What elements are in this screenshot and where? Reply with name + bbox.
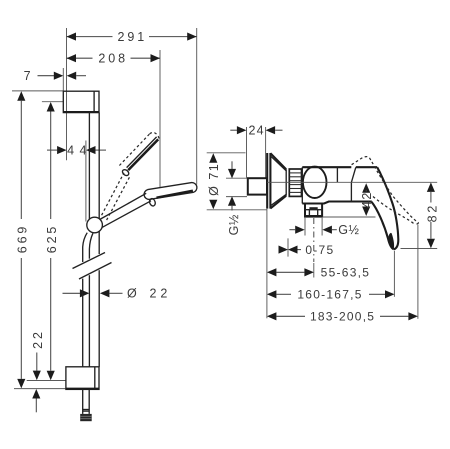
wall bracket top (63, 91, 99, 112)
dimension G1/2 outlet extension lines (304, 218, 306, 236)
svg-text:G½: G½ (338, 223, 359, 237)
dimension 160-167,5 line with arrows (267, 290, 277, 298)
dimension 291 extension line left (66, 28, 68, 160)
knurled nut (289, 169, 301, 196)
rail break mark (73, 253, 106, 269)
svg-text:4: 4 (67, 143, 74, 157)
lever handle top (356, 166, 377, 168)
dimension 291 line (67, 36, 113, 38)
svg-text:42: 42 (360, 191, 374, 208)
hand shower dashed head inner line (127, 137, 157, 168)
slider pivot (87, 217, 103, 233)
hand shower spray face (157, 191, 193, 198)
dimension G1/2 left arrows (231, 161, 233, 169)
rail tube right edge (98, 113, 100, 219)
dimension 7 right arrow and tail (67, 72, 77, 80)
svg-text:55-63,5: 55-63,5 (321, 266, 370, 280)
cartridge dome (303, 167, 327, 198)
dimension Ø71 bottom extension line (207, 209, 267, 211)
dimension 208 arrow right (151, 54, 161, 62)
svg-text:Ø 71: Ø 71 (207, 163, 221, 196)
outlet centerline dashed (313, 218, 315, 262)
dimension G1/2 outlet left arrow (289, 229, 295, 231)
svg-text:208: 208 (98, 52, 128, 66)
body centerline (267, 181, 437, 183)
dimension 24 right arrow with tail (266, 126, 276, 134)
dimension Ø22 right arrow with tail (100, 289, 110, 297)
dimension 183-200,5 extension from dashed lever tip (417, 225, 419, 319)
dimension 82 line with arrows (427, 182, 435, 192)
hand shower head (144, 183, 197, 200)
dimension 24 left arrow with tail (230, 129, 237, 131)
hose upper curve from slider (83, 233, 88, 247)
hand shower dashed head spray face (128, 139, 158, 170)
dimension G1/2 outlet right arrow with tail (322, 226, 332, 234)
dimension 44 left arrow with tail (47, 149, 57, 151)
dimension 669 line with arrows (17, 91, 25, 101)
dimension 42 line with arrows (362, 183, 370, 193)
svg-text:291: 291 (118, 30, 148, 44)
dimension 291 arrow left (67, 33, 77, 41)
hose left edge (82, 247, 84, 262)
valve body bottom edge (302, 202, 372, 204)
dimension 625 line with arrows (47, 102, 55, 112)
dimension Ø22 left arrow with tail (63, 292, 81, 294)
svg-text:Ø: Ø (127, 287, 137, 301)
dimension 55-63,5 line with arrows (267, 268, 277, 276)
lever handle tip dark fill (389, 233, 395, 249)
body joint line (336, 167, 338, 182)
svg-text:183-200,5: 183-200,5 (310, 310, 375, 324)
dimension 625 top extension line (42, 101, 63, 103)
lever handle front edge (377, 167, 398, 249)
dimension 625 bottom extension line (27, 380, 66, 382)
dimension G1/2 left extension lines (226, 177, 247, 179)
dimension 7 left leader and arrow (38, 75, 55, 77)
handle skirt joint (351, 167, 355, 201)
rail tube left edge (88, 113, 90, 220)
dimension 44 right arrow with tail (86, 146, 96, 154)
valve body top edge (302, 166, 351, 168)
svg-text:625: 625 (45, 224, 59, 254)
wall extension line (266, 209, 268, 318)
lever handle back edge (372, 202, 394, 250)
hose below bracket (82, 389, 84, 414)
hand shower hook (149, 198, 157, 207)
svg-text:G½: G½ (227, 214, 241, 235)
hose connector (80, 414, 92, 421)
dimension 291 extension line right (196, 28, 198, 185)
connection nipple (248, 178, 267, 194)
hand shower dashed hook (121, 168, 130, 176)
valve body left edge (301, 167, 303, 203)
dimension 44 extension to holder (85, 141, 87, 222)
dimension 669 top extension line (12, 90, 63, 92)
svg-text:22: 22 (149, 287, 171, 301)
dimension 22 upper arrow (36, 353, 38, 371)
escutcheon cone (270, 153, 286, 169)
dashed lever up position (352, 157, 372, 165)
svg-text:24: 24 (248, 123, 264, 137)
dimension 55-63,5 reference line (313, 263, 315, 278)
outlet flange (305, 204, 322, 217)
dimension 208 line (67, 57, 93, 59)
dimension 82 bottom extension (401, 248, 438, 250)
svg-text:22: 22 (31, 329, 45, 349)
dimension 291 arrow right (187, 33, 197, 41)
hand shower dashed handle (102, 173, 124, 215)
dimension 160-167,5 extension from lever tip (393, 251, 395, 297)
bottom bracket (66, 367, 99, 390)
hand shower dashed head upper edge (119, 134, 149, 166)
dimension 669 bottom extension line (14, 388, 66, 390)
svg-text:0-75: 0-75 (305, 243, 334, 257)
dimension 0-75 reference line (287, 238, 289, 256)
dimension 208 arrow left (67, 54, 77, 62)
dimension 7 stub line (62, 68, 64, 91)
hand shower handle (100, 193, 146, 219)
dimension Ø71 arrows (209, 153, 217, 163)
dimension 24 extension lines (246, 127, 248, 178)
svg-text:82: 82 (425, 203, 439, 223)
dimension Ø71 top extension line (207, 152, 246, 154)
dimension 208 extension line right (159, 50, 161, 187)
escutcheon wall face (266, 153, 268, 209)
svg-text:669: 669 (16, 224, 30, 254)
svg-text:160-167,5: 160-167,5 (297, 288, 362, 302)
hand shower dashed head top cap (150, 132, 159, 139)
dimension 0-75 bowtie arrows (279, 246, 289, 254)
dimension 183-200,5 line with arrows (267, 312, 277, 320)
dimension 22 lower arrow (32, 389, 40, 399)
svg-text:7: 7 (24, 69, 34, 83)
dimension 42 bottom extension (323, 216, 376, 218)
